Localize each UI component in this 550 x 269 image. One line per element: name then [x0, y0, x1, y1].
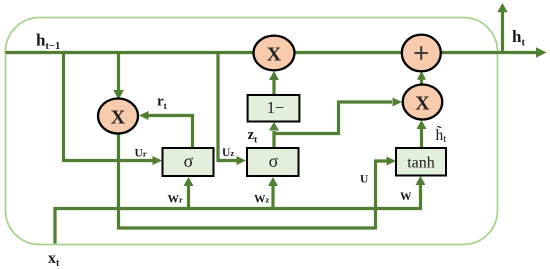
wire: x(t) vertical and line A to W into tanh bottom: [55, 185, 421, 244]
svg-text:Uz: Uz: [222, 147, 234, 159]
svg-text:rt: rt: [157, 94, 168, 113]
svg-text:1−: 1−: [267, 98, 285, 117]
arrowhead: Wr into sigma1 bottom: [184, 177, 194, 186]
svg-text:X: X: [267, 44, 282, 66]
wire: branch down at x=64 to Ur: [64, 53, 154, 161]
svg-text:X: X: [111, 107, 126, 129]
svg-text:ht−1: ht−1: [36, 31, 60, 53]
svg-text:tanh: tanh: [407, 155, 435, 172]
wire: Wz branch up into sigma2 bottom: [271, 186, 274, 209]
arrowhead: h(t) up: [497, 3, 507, 12]
wire: branch down at x=218 to Uz: [218, 53, 237, 161]
svg-text:X: X: [415, 93, 430, 115]
arrowhead: into plus bottom: [417, 71, 426, 80]
arrowhead: Uz into sigma2 left: [237, 156, 247, 165]
wire: 1-minus top up into X2 bottom: [272, 79, 275, 95]
wire: X3 top up into plus bottom: [420, 79, 423, 85]
svg-text:σ: σ: [269, 151, 279, 171]
sigma box 1 (reset gate): [163, 148, 214, 176]
arrowhead: Wz into sigma2 bottom: [268, 177, 278, 186]
wire: main h(t-1) horizontal line: [6, 51, 538, 54]
svg-text:U: U: [360, 174, 369, 186]
wire: branch down at x=118.5 into X1 top: [117, 53, 120, 91]
wire: Wr branch up into sigma1 bottom: [187, 186, 190, 209]
wire: z(t) from sigma2 top up into 1-minus bottom: [272, 131, 275, 148]
svg-text:Ur: Ur: [135, 148, 147, 160]
svg-text:ht: ht: [512, 27, 525, 49]
arrowhead: Ur into sigma1 left: [153, 156, 163, 165]
tanh box: [396, 148, 446, 176]
wire: z(t) branch right into X3 left: [274, 102, 392, 134]
arrowhead: W into tanh bottom: [416, 176, 426, 185]
sigma box 2 (update gate): [247, 148, 299, 176]
svg-text:Wz: Wz: [254, 194, 270, 206]
arrowhead: into X3 bottom: [417, 120, 427, 129]
GRU cell boundary (rounded rectangle): [6, 18, 498, 245]
svg-text:Wr: Wr: [168, 194, 184, 206]
arrowhead: into X1 top: [113, 90, 124, 100]
arrowhead: into X2 bottom: [269, 71, 279, 80]
svg-text:zt: zt: [248, 127, 259, 146]
svg-text:σ: σ: [184, 151, 194, 171]
svg-text:W: W: [400, 191, 412, 203]
arrowhead: into 1-minus bottom: [269, 122, 279, 131]
wire: r(t) from sigma1 top to X1 right: [148, 116, 193, 149]
adder plus circle: [402, 35, 441, 72]
wire: X1 bottom down, along line B, up to tanh left (U path): [119, 130, 388, 228]
arrowhead: U into tanh left: [387, 157, 397, 166]
arrowhead: z(t) into X3 left: [393, 98, 403, 107]
svg-text:xt: xt: [48, 250, 60, 269]
multiplier X1 circle: [98, 99, 138, 134]
multiplier X3 circle: [403, 85, 443, 120]
arrowhead: h(t) output right: [536, 47, 547, 57]
1-minus box: [248, 95, 300, 122]
multiplier X2 circle: [254, 36, 295, 71]
svg-text:h̃t: h̃t: [436, 126, 447, 145]
wire: tanh top up into X3 bottom: [420, 129, 423, 148]
arrowhead: into X1 right: [139, 111, 149, 120]
wire: h(t) vertical up output: [501, 12, 504, 53]
